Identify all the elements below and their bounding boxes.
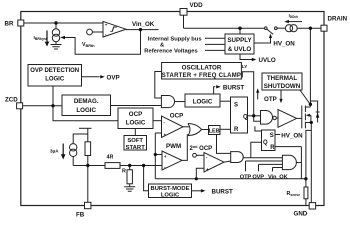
svg-text:STARTER + FREQ CLAMP: STARTER + FREQ CLAMP [162,73,241,79]
svg-text:THERMAL: THERMAL [267,75,297,82]
svg-text:OVP DETECTION: OVP DETECTION [30,68,79,74]
svg-text:OTP: OTP [264,96,277,103]
svg-text:Q: Q [263,140,268,146]
svg-text:3μA: 3μA [50,149,59,154]
svg-text:LEB: LEB [209,128,220,134]
svg-text:BURST: BURST [223,84,245,91]
svg-text:R: R [234,127,239,133]
svg-text:DEMAG.: DEMAG. [74,98,99,105]
svg-text:UVLO: UVLO [259,57,276,64]
svg-text:Vin_OK: Vin_OK [268,174,289,180]
svg-text:OVP: OVP [107,74,120,81]
svg-text:FB: FB [76,211,85,218]
svg-text:BR: BR [5,20,14,27]
svg-text:VDD: VDD [190,2,204,9]
svg-text:R: R [122,168,126,174]
svg-text:S: S [234,103,238,109]
svg-text:GND: GND [294,210,308,217]
svg-text:& UVLO: & UVLO [228,46,252,53]
svg-text:+: + [164,133,167,138]
svg-text:ZCD: ZCD [5,97,18,104]
svg-text:Internal Supply bus: Internal Supply bus [148,36,202,42]
svg-text:LY: LY [242,64,248,70]
svg-text:IDDch: IDDch [289,13,299,19]
svg-text:LOGIC: LOGIC [76,107,96,114]
svg-text:HV_ON: HV_ON [273,41,295,48]
svg-text:Q: Q [243,115,248,121]
svg-text:LOGIC: LOGIC [45,77,65,83]
svg-text:+: + [164,154,167,159]
svg-text:LOGIC: LOGIC [161,192,180,198]
svg-text:PWM: PWM [166,143,181,150]
svg-text:DRAIN: DRAIN [328,15,348,22]
svg-text:SHUTDOWN: SHUTDOWN [264,83,301,90]
svg-text:BURST: BURST [212,188,234,195]
svg-text:OCP: OCP [170,113,183,120]
svg-text:Vin_OK: Vin_OK [132,21,155,28]
svg-text:OSCILLATOR: OSCILLATOR [182,64,222,71]
svg-text:BURST-MODE: BURST-MODE [151,186,190,192]
svg-text:OTP: OTP [240,174,252,180]
svg-text:4R: 4R [107,154,114,160]
svg-text:OVP: OVP [252,174,264,180]
svg-text:SUPPLY: SUPPLY [227,37,252,44]
svg-text:R: R [270,145,275,151]
svg-text:Reference Voltages: Reference Voltages [144,48,197,54]
svg-text:START: START [126,145,146,151]
svg-text:LOGIC: LOGIC [193,99,213,106]
svg-text:SOFT: SOFT [127,138,143,144]
svg-text:S: S [270,133,274,139]
svg-text:+: + [206,167,209,172]
svg-text:OCP: OCP [129,111,142,118]
svg-text:+: + [105,23,108,28]
svg-text:LOGIC: LOGIC [126,120,146,127]
svg-text:HV_ON: HV_ON [281,133,303,140]
